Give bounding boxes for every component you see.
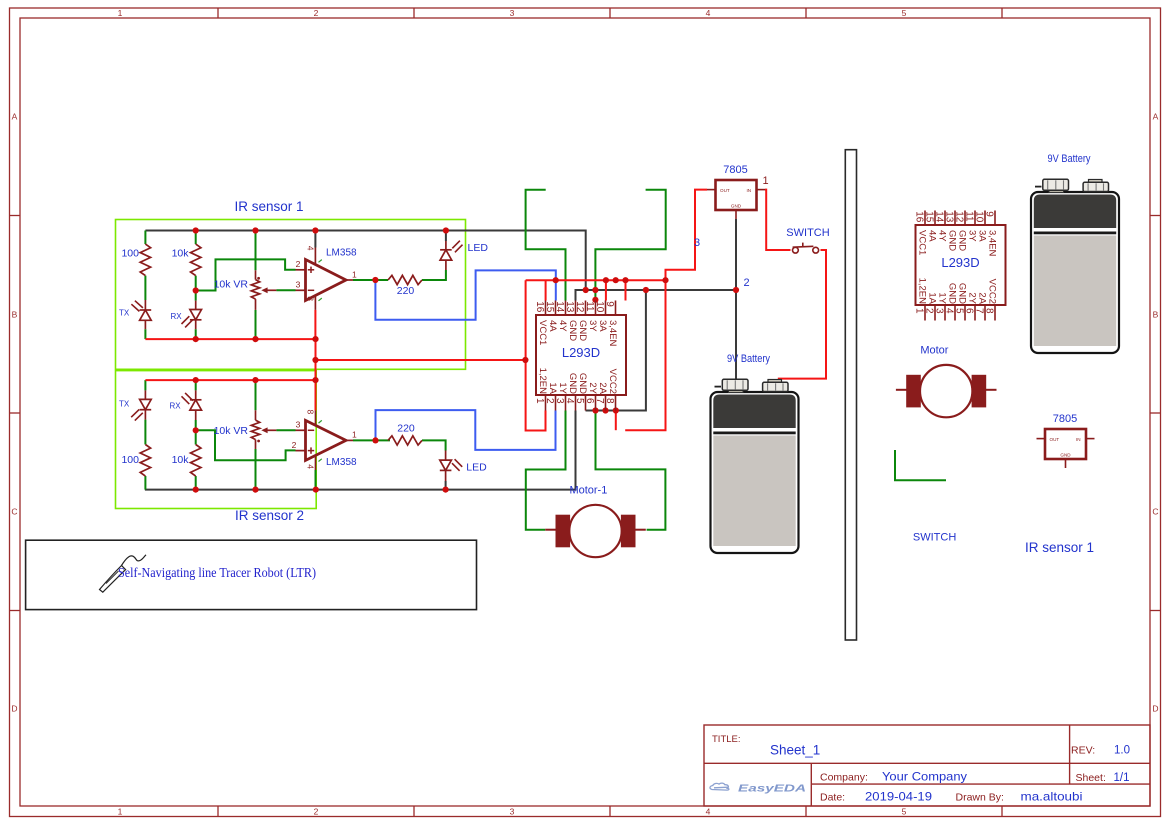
diode TX1 infrared emitter [144, 300, 146, 310]
battery B1 positive terminal [768, 380, 782, 384]
IC U2 bottom pins [545, 395, 547, 411]
svg-text:RX: RX [171, 312, 183, 321]
diode RX2 infrared receiver [195, 390, 197, 399]
svg-text:1: 1 [352, 269, 357, 279]
battery B1 grey section [713, 436, 795, 547]
svg-text:A: A [1153, 112, 1159, 122]
svg-text:VCC2: VCC2 [607, 369, 618, 394]
wire LED1 top stub (black) [445, 231, 447, 242]
wire TX1 to rail (green) [144, 329, 146, 339]
regulator U5 (spare) 7805 body [1045, 429, 1086, 459]
svg-text:IN: IN [747, 188, 752, 193]
svg-text:1.0: 1.0 [1114, 745, 1130, 757]
svg-text:L293D: L293D [941, 255, 979, 270]
wire node 2 rail above L293D (red) [526, 279, 666, 281]
svg-text:1Y: 1Y [557, 382, 568, 394]
wire RX2 to R5 (green) [195, 420, 197, 445]
svg-text:Date:: Date: [820, 792, 845, 804]
svg-text:6: 6 [963, 308, 974, 314]
svg-text:D: D [11, 704, 17, 714]
svg-text:10: 10 [594, 301, 605, 313]
svg-text:OUT: OUT [720, 188, 730, 193]
svg-text:1A: 1A [547, 382, 558, 394]
wire opamp2 pin4 to GND rail (green) [315, 470, 317, 490]
battery B1 minus sign [715, 386, 722, 388]
wire GND bottom rail IR2 (black) [145, 411, 576, 490]
battery B2 (spare) dark top section [1034, 195, 1116, 229]
svg-text:7: 7 [594, 398, 605, 404]
wire hook to pin14 4Y (green) [526, 190, 566, 301]
wire VR1 bottom (green) [255, 310, 257, 339]
svg-text:14: 14 [933, 211, 944, 223]
svg-text:3: 3 [933, 308, 944, 314]
svg-text:Drawn By:: Drawn By: [956, 792, 1004, 804]
title block dividers [704, 762, 1150, 764]
wire divider node to opamp2 pin2 (green) [196, 430, 296, 460]
svg-text:LM358: LM358 [326, 457, 357, 468]
svg-text:9: 9 [604, 301, 615, 307]
svg-text:LED: LED [466, 461, 487, 473]
svg-text:2: 2 [544, 398, 555, 404]
svg-text:5: 5 [574, 398, 585, 404]
svg-text:Motor: Motor [920, 345, 948, 357]
potentiometer VR2 10k VR [255, 410, 257, 420]
wire divider node to opamp1 pin2 (green) [196, 259, 296, 290]
svg-text:4: 4 [706, 807, 711, 817]
resistor R3 220 (IR1) [388, 275, 422, 284]
diode LED2 [445, 451, 447, 461]
svg-text:3,4EN: 3,4EN [987, 230, 998, 257]
diode LED1 [445, 241, 447, 250]
wire pin3 1Y to motor left (green) [526, 411, 566, 530]
op-amp U1A plus minus marks [308, 269, 314, 271]
svg-text:13: 13 [564, 301, 575, 313]
svg-text:SWITCH: SWITCH [786, 227, 829, 239]
svg-text:1: 1 [763, 175, 769, 187]
wire LED2 bottom stub (black) [445, 481, 447, 490]
svg-text:Sheet_1: Sheet_1 [770, 742, 820, 757]
svg-text:GND: GND [577, 320, 588, 341]
svg-text:16: 16 [913, 211, 924, 223]
switch S1 lever [793, 245, 814, 248]
frame column ticks bottom [217, 806, 219, 817]
svg-text:IR sensor 1: IR sensor 1 [1025, 540, 1094, 555]
wire R6 to LED2 (green) [422, 440, 446, 450]
svg-text:4: 4 [564, 398, 575, 404]
wire RX1 to rail (green) [195, 329, 197, 339]
battery B1 separator line [713, 432, 795, 435]
svg-text:1: 1 [913, 308, 924, 314]
wire pin16 VCC1 stub (red) [545, 280, 547, 300]
svg-text:5: 5 [902, 807, 907, 817]
junction dot pin11 top [592, 297, 598, 303]
battery B2 (spare) positive terminal [1089, 180, 1103, 184]
wire R2 to RX1 (green) [195, 276, 197, 301]
svg-text:B: B [1153, 310, 1159, 320]
svg-text:2: 2 [292, 440, 297, 450]
frame row ticks right [1150, 215, 1161, 217]
svg-text:9: 9 [983, 211, 994, 217]
svg-text:VCC2: VCC2 [987, 279, 998, 304]
svg-text:TITLE:: TITLE: [712, 734, 741, 745]
svg-text:1: 1 [118, 8, 123, 18]
svg-text:14: 14 [554, 301, 565, 313]
IR sensor 1 block rectangle [116, 220, 466, 370]
svg-text:7805: 7805 [1053, 413, 1077, 425]
svg-text:4Y: 4Y [557, 320, 568, 332]
battery B2 (spare) grey section [1034, 236, 1116, 347]
svg-text:1Y: 1Y [937, 292, 948, 304]
wire opamp1 pin4 stub (black) [314, 231, 316, 248]
svg-text:2: 2 [314, 807, 319, 817]
wire VR2 bottom (green) [255, 449, 257, 490]
svg-text:L293D: L293D [562, 345, 600, 360]
op-amp U1B plus minus marks [308, 429, 314, 431]
svg-text:3Y: 3Y [587, 320, 598, 332]
wire GND rail mid (black) pin13 to node2 [576, 290, 737, 301]
svg-text:LM358: LM358 [326, 248, 357, 259]
svg-text:Sheet:: Sheet: [1076, 772, 1106, 784]
resistor R2 10k (IR1) [191, 244, 201, 276]
svg-text:9V Battery: 9V Battery [1048, 153, 1091, 165]
wire vertical IR1-IR2 power link (red) [315, 339, 317, 410]
svg-text:220: 220 [397, 422, 415, 434]
svg-text:4Y: 4Y [937, 230, 948, 242]
wire pin5 GND loop (black) [586, 290, 646, 411]
wire R2 top stub (green) [195, 231, 197, 245]
wire dangling stub near pin9 (red) [625, 280, 627, 300]
svg-text:SWITCH: SWITCH [913, 532, 956, 544]
battery B2 (spare) minus sign [1035, 186, 1042, 188]
IC U3 (spare) top pins [924, 211, 926, 226]
op-amp U1A LM358 (IR1) [306, 260, 347, 301]
svg-text:100: 100 [121, 454, 139, 466]
regulator U4 pins [707, 189, 716, 191]
wire node 1 7805-IN to switch (red) [765, 190, 791, 250]
svg-text:3: 3 [554, 398, 565, 404]
svg-text:3: 3 [510, 8, 515, 18]
svg-text:4: 4 [943, 308, 954, 314]
wire GND bottom rail IR1 (red) [145, 338, 315, 340]
diode TX2 infrared emitter [144, 390, 146, 399]
svg-text:GND: GND [957, 283, 968, 304]
op-amp U1B LM358 (IR2) [306, 420, 347, 460]
svg-text:10k: 10k [172, 454, 190, 466]
svg-text:220: 220 [397, 285, 415, 297]
svg-text:EasyEDA: EasyEDA [738, 784, 806, 795]
junction dots IR2 bottom rail [193, 487, 199, 493]
wire RX2 top stub (green) [195, 380, 197, 390]
svg-text:Company:: Company: [820, 771, 868, 783]
IC U2 L293D body [536, 315, 626, 395]
note box rectangle [26, 540, 477, 609]
svg-text:IR sensor 2: IR sensor 2 [235, 508, 304, 523]
svg-text:REV:: REV: [1071, 745, 1095, 757]
wire power link to L293D pin1 net (red) [316, 359, 526, 361]
IR sensor 2 block rectangle [116, 371, 317, 509]
svg-text:Your Company: Your Company [882, 769, 967, 783]
svg-text:2A: 2A [977, 292, 988, 304]
svg-text:Motor-1: Motor-1 [569, 485, 607, 497]
svg-text:B: B [12, 310, 18, 320]
wire R1 to TX1 (green) [144, 276, 146, 300]
battery B2 (spare) separator line [1034, 232, 1116, 235]
junction dots node2 rail [553, 277, 559, 283]
svg-text:8: 8 [305, 410, 315, 415]
svg-text:RX: RX [170, 402, 182, 411]
regulator U5 (spare) pins [1037, 438, 1046, 440]
svg-text:11: 11 [584, 301, 595, 312]
svg-text:16: 16 [534, 301, 545, 313]
svg-text:1A: 1A [927, 292, 938, 304]
svg-text:10k: 10k [172, 248, 190, 260]
wire opamp1 output to pin15 4A (blue) [375, 270, 555, 319]
svg-text:1,2EN: 1,2EN [537, 368, 548, 395]
svg-text:2A: 2A [597, 382, 608, 394]
svg-text:10: 10 [973, 211, 984, 223]
svg-text:7: 7 [973, 308, 984, 314]
motor M2 (spare) terminals [896, 389, 907, 391]
svg-text:8: 8 [983, 308, 994, 314]
svg-text:1: 1 [352, 430, 357, 440]
svg-text:2: 2 [314, 8, 319, 18]
junction dots IR2 top rail [193, 377, 199, 383]
resistor R4 100 (IR2) [140, 445, 150, 477]
svg-text:3: 3 [296, 419, 301, 429]
svg-text:10k VR: 10k VR [214, 425, 249, 437]
wire R1 top stub (green) [144, 231, 146, 245]
svg-text:3,4EN: 3,4EN [607, 320, 618, 347]
svg-text:3: 3 [296, 279, 301, 289]
resistor R1 100 (IR1) [140, 244, 150, 276]
op-amp U1B tiny unit marks [319, 420, 322, 423]
svg-text:GND: GND [1060, 452, 1071, 457]
svg-text:2: 2 [744, 277, 750, 289]
battery B2 (spare) 9V body [1031, 192, 1119, 353]
svg-text:5: 5 [953, 308, 964, 314]
svg-text:TX: TX [119, 309, 130, 318]
svg-text:4: 4 [305, 246, 315, 251]
svg-text:GND: GND [957, 230, 968, 251]
svg-text:15: 15 [923, 211, 934, 223]
wire VR2 wiper to opamp2 pin3 (green) [276, 429, 295, 431]
svg-text:IN: IN [1076, 437, 1081, 442]
svg-text:7805: 7805 [723, 164, 747, 176]
svg-text:GND: GND [947, 283, 958, 304]
svg-text:2: 2 [296, 259, 301, 269]
vertical bar rectangle [845, 150, 856, 640]
svg-text:GND: GND [567, 373, 578, 394]
svg-text:13: 13 [943, 211, 954, 223]
svg-text:TX: TX [119, 400, 130, 409]
svg-text:1,2EN: 1,2EN [917, 278, 928, 305]
IC U2 top pins [545, 301, 547, 316]
wire R5 bottom stub (green) [195, 476, 197, 490]
wire opamp2 output to R6 (green) [353, 439, 390, 441]
svg-text:12: 12 [953, 211, 964, 223]
wire opamp1 pin8 to rail (red) [314, 310, 316, 339]
wire VCC top rail IR1 (black) [145, 231, 585, 291]
svg-text:GND: GND [577, 373, 588, 394]
resistor R5 10k (IR2) [191, 445, 201, 477]
svg-text:2019-04-19: 2019-04-19 [865, 789, 932, 803]
battery B1 9V body [711, 392, 799, 553]
frame row ticks left [10, 215, 21, 217]
junction dot divider IR1 [193, 287, 199, 293]
svg-text:8: 8 [305, 296, 315, 301]
svg-text:3A: 3A [597, 320, 608, 332]
svg-text:ma.altoubi: ma.altoubi [1021, 789, 1083, 803]
IC U3 (spare) bottom pins [924, 305, 926, 321]
wire TX2 to R4 (green) [144, 420, 146, 445]
junction dots IR1 top rail [193, 227, 199, 233]
wire pin6 2Y to motor right (green) [596, 411, 666, 530]
svg-text:IR sensor 1: IR sensor 1 [234, 199, 303, 214]
svg-text:4A: 4A [547, 320, 558, 332]
wire VR2 top (green) [255, 380, 257, 410]
wire node 3 7805-OUT net (red) [625, 190, 707, 431]
wire R3 to LED1 (green) [422, 270, 446, 280]
svg-text:GND: GND [947, 230, 958, 251]
wire opamp2 output to pin2 1A (blue) [376, 410, 556, 450]
wire pin8 VCC2 dangling stub (red) [615, 411, 617, 431]
svg-text:LED: LED [468, 242, 489, 254]
svg-text:GND: GND [731, 203, 742, 208]
IC U3 (spare) L293D body [916, 225, 1006, 305]
junction dots power link [312, 357, 318, 363]
svg-text:5: 5 [902, 8, 907, 18]
svg-text:4: 4 [305, 464, 315, 469]
wire TX2 top stub (green) [144, 380, 146, 390]
battery B1 negative terminal [729, 389, 744, 393]
svg-text:VCC1: VCC1 [537, 320, 548, 345]
svg-text:Self-Navigating line Tracer Ro: Self-Navigating line Tracer Robot (LTR) [118, 565, 316, 580]
junction dot opamp2 output [372, 437, 378, 443]
regulator U4 7805 body [716, 180, 757, 210]
svg-text:4A: 4A [927, 230, 938, 242]
svg-text:3Y: 3Y [967, 230, 978, 242]
frame column ticks top [217, 8, 219, 18]
junction dots L293D bottom pins [592, 407, 598, 413]
svg-text:10k VR: 10k VR [214, 278, 249, 290]
junction dot opamp1 output [372, 277, 378, 283]
wire VR1 top (green) [255, 231, 257, 271]
svg-text:3: 3 [694, 237, 700, 249]
note pen icon [100, 566, 126, 593]
svg-text:A: A [12, 112, 18, 122]
svg-text:D: D [1152, 704, 1158, 714]
svg-text:C: C [1152, 507, 1158, 517]
svg-text:11: 11 [963, 211, 974, 222]
svg-text:GND: GND [567, 320, 578, 341]
title block outline [704, 725, 1150, 806]
wire pin10 3A stub (red) [605, 280, 607, 300]
motor M1 terminals [545, 529, 556, 531]
wire R4 bottom stub (green) [144, 476, 146, 490]
op-amp U1A tiny unit marks [319, 260, 322, 263]
motor M2 (spare) brush blocks [907, 375, 921, 407]
svg-text:OUT: OUT [1050, 437, 1060, 442]
svg-text:2Y: 2Y [587, 382, 598, 394]
potentiometer VR1 10k VR [255, 270, 257, 279]
svg-text:12: 12 [574, 301, 585, 313]
motor M2 (spare) body circle [920, 365, 972, 417]
svg-text:VCC1: VCC1 [917, 230, 928, 255]
svg-text:9V Battery: 9V Battery [727, 353, 770, 365]
junction dot divider IR2 [193, 427, 199, 433]
EasyEDA logo [710, 783, 729, 790]
wire hook to pin11 3Y (green) [595, 190, 665, 301]
wire node 2 vertical 7805-GND to battery (black) [735, 219, 737, 380]
motor M1 body circle [569, 505, 621, 557]
svg-text:100: 100 [121, 248, 139, 260]
svg-text:C: C [11, 507, 17, 517]
resistor R6 220 (IR2) [388, 436, 422, 445]
wire opamp1 output to R3 (green) [353, 279, 388, 281]
wire VCC top rail IR2 (red) [145, 379, 315, 381]
junction dots GND mid rail [583, 287, 589, 293]
svg-text:1: 1 [534, 398, 545, 404]
wire VR1 wiper to opamp1 pin3 (green) [276, 289, 295, 291]
battery B1 dark top section [713, 395, 795, 429]
wire spare L-shape (green) [895, 450, 946, 480]
svg-text:15: 15 [544, 301, 555, 313]
junction dots IR1 bottom rail [193, 336, 199, 342]
diode RX1 infrared receiver [195, 301, 197, 310]
motor M1 brush blocks [556, 515, 570, 547]
svg-text:6: 6 [584, 398, 595, 404]
battery B2 (spare) negative terminal [1049, 189, 1064, 193]
svg-text:3A: 3A [977, 230, 988, 242]
svg-text:8: 8 [604, 398, 615, 404]
svg-text:1/1: 1/1 [1114, 772, 1130, 784]
svg-text:2Y: 2Y [967, 292, 978, 304]
svg-text:2: 2 [923, 308, 934, 314]
svg-text:4: 4 [706, 8, 711, 18]
svg-text:1: 1 [118, 807, 123, 817]
svg-text:3: 3 [510, 807, 515, 817]
wire switch to battery plus (red) [778, 250, 826, 379]
wire L293D pin1 1,2EN net (red) [526, 280, 546, 430]
switch S1 contacts [793, 247, 799, 253]
